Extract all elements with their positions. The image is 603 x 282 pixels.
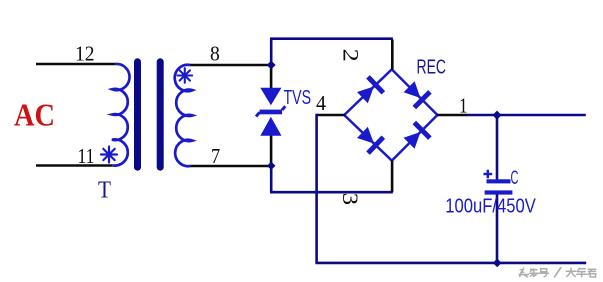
junction node 1 / capacitor C	[492, 111, 501, 120]
wire box left edge upper segment	[270, 39, 273, 65]
svg-text:4: 4	[316, 91, 326, 115]
pin wire TVS bottom	[270, 136, 273, 167]
junction node pin7 / TVS	[267, 162, 276, 170]
svg-text:AC: AC	[14, 98, 55, 133]
svg-text:11: 11	[78, 144, 95, 168]
bridge diode D4 (bottom to right)	[404, 132, 421, 149]
svg-text:TVS: TVS	[284, 86, 312, 109]
pin wire bridge pin 4 (left)	[317, 114, 345, 117]
capacitor C bottom plate	[485, 190, 513, 194]
svg-text:100uF/450V: 100uF/450V	[445, 195, 536, 217]
wire pin 11 of transformer T	[36, 164, 112, 167]
wire pin 8 of transformer T	[190, 64, 271, 67]
wire node 4 vertical drop	[315, 114, 318, 263]
svg-text:7: 7	[211, 144, 220, 168]
capacitor C top plate	[487, 179, 511, 183]
transformer T secondary winding	[175, 65, 193, 166]
polarity dot (asterisk) primary of T	[101, 147, 117, 163]
polarity dot (asterisk) secondary of T	[178, 68, 193, 83]
pin wire bridge pin 1 (right)	[437, 114, 467, 117]
svg-text:12: 12	[75, 42, 95, 66]
svg-text:1: 1	[459, 94, 468, 118]
capacitor C plus sign	[483, 170, 492, 179]
TVS diode upper triangle	[260, 88, 281, 106]
wire bottom rail	[315, 262, 586, 265]
bridge diode D3 (left to bottom)	[357, 127, 374, 144]
transformer T core bar left	[134, 62, 141, 167]
svg-text:REC: REC	[417, 56, 447, 78]
pin wire bridge pin 3 (bottom)	[391, 160, 394, 192]
svg-text:8: 8	[210, 42, 220, 66]
watermark	[519, 268, 596, 277]
wire pin 7 of transformer T	[190, 165, 271, 168]
svg-text:C: C	[511, 168, 519, 189]
wire capacitor C top lead	[496, 115, 499, 180]
TVS diode lower triangle	[260, 117, 281, 136]
junction node capacitor / bottom rail	[493, 259, 502, 268]
bridge rectifier REC diamond	[344, 69, 437, 160]
wire pin 12 of transformer T	[36, 63, 116, 66]
svg-text:3: 3	[338, 193, 363, 206]
pin wire bridge pin 2 (top)	[391, 40, 394, 70]
bridge diode D1 (left to top)	[357, 87, 374, 104]
transformer T primary winding	[112, 64, 130, 166]
wire capacitor C bottom lead	[496, 194, 499, 263]
svg-text:2: 2	[338, 49, 363, 62]
wire box left edge lower segment	[270, 166, 273, 192]
bridge diode D2 (top to right)	[404, 81, 421, 98]
wire box top edge	[270, 37, 393, 40]
TVS diode bar	[255, 105, 287, 117]
transformer T core bar right	[157, 62, 164, 167]
svg-text:T: T	[98, 178, 111, 204]
junction node pin8 / TVS	[267, 61, 276, 70]
wire box bottom edge	[270, 191, 393, 194]
pin wire TVS top	[270, 65, 273, 89]
wire output rail (node 1)	[467, 114, 586, 117]
